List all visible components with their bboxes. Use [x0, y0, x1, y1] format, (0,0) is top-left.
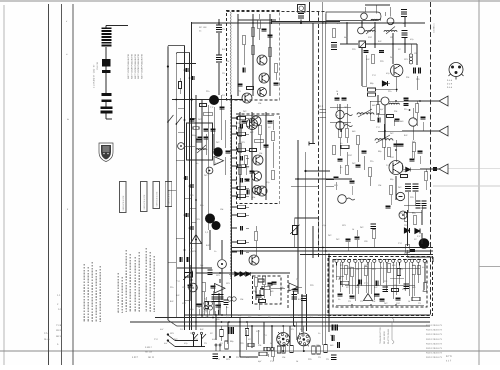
resistor R130	[205, 302, 208, 309]
pin wire b	[246, 206, 249, 208]
alignment dot M4	[212, 221, 221, 230]
capacitor C66	[364, 51, 369, 53]
resistor R27	[247, 87, 254, 90]
capacitor C72	[404, 104, 409, 106]
page rule line right stub	[479, 266, 500, 268]
resistor R122	[277, 346, 280, 353]
wire	[246, 322, 248, 328]
wire	[392, 33, 394, 64]
module wire (x202)	[201, 100, 203, 318]
svg-text:71 36: 71 36	[56, 324, 63, 327]
junction	[301, 321, 303, 323]
junction on y23 rail	[269, 22, 271, 24]
svg-text:DR 111 9000: DR 111 9000	[383, 331, 386, 344]
wire	[218, 19, 220, 25]
wire y44	[340, 43, 358, 45]
wire	[376, 114, 385, 116]
wire	[303, 346, 305, 351]
wire in box II	[239, 112, 241, 200]
electrolytic capacitor C81	[405, 184, 411, 191]
capacitor C11	[204, 129, 209, 131]
wire	[365, 55, 367, 86]
legend box 1	[120, 182, 127, 213]
wire	[362, 85, 367, 87]
level triangle	[289, 283, 298, 291]
capacitor C19	[211, 286, 216, 288]
junction	[191, 279, 193, 281]
electrolytic capacitor C42	[216, 55, 222, 62]
wire	[221, 240, 223, 259]
bus rail y251	[232, 250, 433, 252]
wire	[346, 152, 348, 165]
svg-text:OC 75: OC 75	[205, 310, 208, 317]
resistor R79	[415, 104, 419, 113]
alignment dot M5	[419, 238, 430, 249]
wire	[339, 165, 341, 174]
electrolytic capacitor C97	[301, 296, 307, 301]
capacitor C98	[355, 237, 360, 239]
drop wire	[271, 326, 273, 348]
junction	[239, 321, 241, 323]
bus rail y326 with bend	[168, 320, 430, 326]
IC pin drop wire 5	[361, 266, 363, 287]
wire	[407, 250, 409, 257]
capacitor C11c	[204, 137, 209, 139]
capacitor C91	[335, 98, 340, 100]
scan streak y186	[433, 185, 500, 187]
wire	[255, 287, 257, 300]
wire	[214, 311, 216, 315]
wire	[105, 73, 107, 93]
capacitor C54	[241, 156, 243, 161]
potentiometer P2 (volume)	[183, 271, 193, 280]
wire	[425, 169, 427, 172]
junction	[396, 89, 398, 91]
pin wire b	[246, 214, 249, 216]
capacitor C48	[191, 184, 193, 188]
diode D3	[415, 228, 420, 233]
wire	[351, 186, 353, 195]
wire	[410, 44, 412, 53]
transistor T4	[251, 116, 261, 126]
wire	[105, 102, 107, 106]
wire	[336, 275, 344, 277]
junction	[251, 325, 253, 327]
terminal lead	[272, 21, 341, 23]
electrolytic capacitor C115	[291, 295, 297, 300]
wire	[330, 121, 351, 123]
junction	[167, 121, 169, 123]
dial scale band 7	[102, 45, 112, 47]
switch lever S1b	[167, 340, 175, 347]
IC pin drop wire 12	[405, 266, 407, 292]
capacitor C68	[414, 68, 416, 74]
coil L5	[389, 103, 399, 104]
capacitor C31	[245, 179, 250, 181]
junction	[395, 100, 397, 102]
wire	[271, 287, 285, 289]
wire	[258, 290, 260, 294]
capacitor C44	[220, 107, 225, 109]
svg-text:C51 C52: C51 C52	[96, 61, 99, 70]
junction	[195, 321, 197, 323]
resistor R21	[251, 28, 255, 37]
resistor R34	[271, 132, 275, 141]
legend box 3	[153, 182, 160, 209]
tick	[178, 131, 185, 133]
transistor T2	[259, 73, 269, 83]
transistor T11 (RF amp)	[391, 64, 403, 76]
capacitor C133	[375, 294, 380, 296]
junction	[374, 43, 376, 45]
pin wire	[232, 241, 238, 243]
scalloped shield line x230	[230, 12, 231, 279]
wire	[416, 76, 418, 90]
paper fold line left	[3, 5, 5, 365]
diode D4b	[240, 272, 244, 276]
module wire (x214)	[213, 107, 215, 150]
wire	[373, 239, 375, 247]
AF arrow triangle	[215, 284, 226, 294]
resistor R131	[397, 269, 400, 276]
resistor R72	[382, 139, 386, 148]
wire	[275, 73, 277, 80]
resistor R103	[364, 267, 368, 276]
dial band 9	[102, 93, 112, 96]
junction	[184, 214, 186, 216]
test point TP10	[399, 211, 407, 219]
electrolytic capacitor C82	[413, 184, 419, 191]
audio rail y273	[196, 272, 290, 274]
wire	[225, 306, 227, 315]
resistor R128	[258, 279, 264, 282]
wire	[382, 83, 390, 85]
fold line A	[48, 4, 50, 365]
capacitor C102	[376, 281, 378, 286]
service note text column 14	[153, 256, 155, 312]
switch wire y340	[175, 340, 198, 342]
resistor R126	[317, 346, 320, 354]
contact K2a	[192, 332, 198, 347]
dashed module box IV	[253, 276, 282, 304]
capacitor C18	[197, 139, 202, 141]
legend box 2	[141, 182, 148, 212]
wire	[336, 93, 338, 95]
svg-text:C4 8 73: C4 8 73	[434, 324, 442, 327]
pin wire	[232, 133, 238, 135]
junction	[175, 99, 177, 101]
junction	[212, 317, 214, 319]
wire	[396, 77, 398, 92]
test point TP1	[178, 143, 185, 150]
junction	[189, 227, 191, 229]
connector K1 circle	[299, 6, 303, 10]
module wire (x196)	[195, 95, 197, 330]
wire	[413, 152, 415, 160]
drop wire	[215, 315, 217, 340]
capacitor C105	[338, 294, 343, 296]
resistor R53	[238, 148, 246, 151]
electrolytic capacitor C117	[212, 354, 218, 359]
resistor R116	[262, 276, 266, 285]
junction	[395, 149, 397, 151]
lamp LA1	[204, 301, 213, 310]
svg-text:C4 8 73: C4 8 73	[434, 329, 442, 332]
resistor R82	[413, 216, 417, 225]
dial band 12	[101, 111, 113, 114]
transistor T5	[253, 155, 263, 165]
resistor R80d	[424, 172, 428, 181]
wire	[346, 23, 348, 44]
junction on y23 rail	[374, 22, 376, 24]
coil L2	[365, 30, 375, 31]
wire	[384, 105, 386, 139]
net bus V3 (x176)	[175, 54, 177, 318]
svg-text:SK 11: SK 11	[148, 356, 155, 359]
pin wire b	[246, 165, 249, 167]
TP10 dot	[402, 214, 404, 216]
dial scale band 2	[102, 30, 112, 32]
svg-text:4 017: 4 017	[132, 356, 138, 359]
resistor R55	[238, 164, 246, 167]
capacitor C13	[190, 119, 195, 121]
drop wire	[227, 322, 229, 344]
module top wire (y99)	[172, 99, 243, 101]
resistor R65	[368, 93, 376, 96]
IC pin drop wire 11	[399, 266, 401, 285]
net bus V2 (x168)	[167, 47, 169, 320]
resistor R96	[372, 230, 376, 239]
wire	[384, 12, 386, 16]
tick	[190, 207, 197, 209]
junction node	[304, 170, 306, 172]
svg-text:TRANSDUCTOR: TRANSDUCTOR	[379, 327, 382, 344]
capacitor C77	[386, 206, 391, 208]
wire	[179, 89, 181, 94]
svg-text:C4 8 73: C4 8 73	[434, 333, 442, 336]
svg-text:C4 8 73: C4 8 73	[434, 356, 442, 359]
wire	[339, 138, 341, 156]
capacitor C63	[241, 250, 243, 255]
antenna feed wire 3	[420, 168, 439, 170]
test point TP11	[336, 110, 344, 118]
wire	[303, 326, 305, 333]
pin wire	[232, 214, 238, 216]
junction	[184, 177, 186, 179]
electrolytic capacitor C104	[403, 284, 409, 289]
wire	[432, 257, 434, 262]
svg-text:SERVICE NOTE: SERVICE NOTE	[155, 191, 158, 207]
resistor R123	[282, 346, 285, 353]
IC pin drop wire 10	[392, 266, 394, 300]
pin wire b	[246, 241, 249, 243]
wire x313	[312, 226, 314, 258]
capacitor C34	[250, 171, 255, 173]
capacitor C101	[359, 280, 361, 285]
junction	[325, 250, 327, 252]
wire	[402, 168, 420, 170]
electrolytic capacitor C126	[331, 355, 337, 360]
wire	[214, 302, 216, 315]
service note text column 9	[129, 254, 131, 312]
junction	[297, 178, 299, 180]
wire	[395, 262, 397, 295]
svg-text:NIET VOOR PUBLIKATIE: NIET VOOR PUBLIKATIE	[127, 53, 130, 79]
capacitor C94b	[350, 181, 355, 183]
junction	[221, 321, 223, 323]
wire	[402, 130, 417, 132]
wire	[300, 20, 302, 24]
wire	[404, 38, 406, 53]
wire	[294, 235, 296, 248]
junction	[176, 123, 178, 125]
wire	[401, 163, 403, 169]
wire	[374, 24, 376, 48]
junction	[167, 65, 169, 67]
pin wire	[232, 251, 238, 253]
junction	[223, 356, 225, 358]
diode D6	[406, 167, 410, 171]
junction	[184, 249, 186, 251]
resistor R112	[259, 352, 267, 355]
wire	[365, 276, 367, 293]
resistor R74	[387, 148, 391, 157]
wire	[390, 277, 404, 279]
wire y218	[295, 217, 319, 219]
wire	[416, 101, 418, 104]
capacitor C92	[342, 98, 347, 100]
resistor R113	[271, 348, 275, 357]
drop wire	[289, 326, 291, 345]
wire spine x309	[309, 2, 311, 21]
coil L6 arrow	[376, 135, 390, 143]
wire	[419, 156, 421, 164]
transistor T3	[258, 88, 267, 97]
svg-text:NIET VOOR PUBLIKATIE: NIET VOOR PUBLIKATIE	[130, 53, 133, 79]
capacitor C69	[419, 68, 421, 74]
net bus x325	[325, 14, 327, 345]
IC edge wire (x231.5)	[231, 95, 233, 318]
wire	[267, 354, 269, 357]
capacitor C119	[268, 283, 273, 285]
capacitor C94	[334, 177, 339, 179]
resistor R62	[371, 55, 375, 64]
wire	[258, 14, 260, 19]
scan artifact: top edge bar	[0, 0, 500, 2]
resistor R23	[268, 48, 272, 57]
op-amp triangle	[364, 294, 373, 301]
wire	[424, 262, 426, 283]
wire	[336, 304, 424, 306]
junction	[184, 69, 186, 71]
svg-text:b c e: b c e	[447, 79, 453, 82]
service note text column 6	[117, 273, 119, 313]
junction	[384, 130, 386, 132]
pin wire	[232, 227, 238, 229]
oscillator can Q2 (socket view)	[297, 332, 310, 346]
dashed IC box outer	[328, 257, 433, 316]
bus rail y247	[232, 247, 433, 249]
resistor R81	[404, 213, 408, 222]
coil L6	[375, 139, 393, 141]
service note text column 8	[125, 250, 127, 312]
service note text column 3	[91, 262, 93, 322]
wire	[351, 277, 353, 294]
scan seam line right	[478, 0, 480, 365]
svg-text:28 37: 28 37	[56, 329, 63, 332]
wire	[346, 138, 348, 143]
resistor R26	[257, 20, 261, 29]
wire	[357, 145, 359, 162]
triangle drop wire	[293, 291, 295, 326]
TP10a minus sign	[399, 196, 403, 198]
resistor R115	[254, 278, 258, 287]
coil L5a arrow	[358, 109, 372, 117]
resistor R120	[225, 341, 228, 349]
wire	[224, 157, 226, 175]
wire	[383, 124, 385, 139]
junction	[328, 254, 330, 256]
transistor pinout diagram	[449, 63, 464, 80]
capacitor C93	[338, 159, 343, 161]
test point TP4	[361, 13, 368, 20]
capacitor C107	[380, 299, 385, 301]
wire in box II top	[238, 114, 274, 116]
wire	[221, 326, 223, 329]
svg-text:M: M	[192, 286, 195, 290]
test point TP6	[358, 27, 365, 34]
wire	[218, 33, 220, 55]
capacitor C21	[268, 35, 273, 37]
svg-text:PLATTE DN111: PLATTE DN111	[387, 328, 390, 344]
supply rail top (y23)	[192, 22, 425, 24]
test point TP8	[409, 118, 417, 126]
transistor T10	[253, 186, 262, 195]
wire	[195, 272, 197, 283]
wire x298	[297, 140, 299, 294]
svg-text:4 1 7: 4 1 7	[446, 360, 452, 363]
wire	[205, 134, 207, 155]
wire dial chain top lead	[106, 25, 128, 27]
contact K2b	[200, 332, 206, 347]
wire	[411, 150, 413, 158]
antenna symbol A2	[439, 126, 448, 136]
pin wire b	[246, 187, 249, 189]
antenna symbol A3	[439, 164, 448, 174]
resistor R32	[238, 144, 242, 153]
resistor R59	[238, 205, 246, 208]
wire	[208, 311, 210, 315]
wire in box II c	[265, 112, 267, 200]
service note text column 2	[87, 267, 89, 322]
motor symbol M	[189, 283, 198, 292]
svg-text:U4 ABC 1: U4 ABC 1	[433, 23, 436, 33]
capacitor C36	[242, 121, 247, 123]
wire	[298, 286, 302, 288]
wire	[184, 145, 195, 147]
dashed module box II	[237, 114, 280, 204]
wire y5	[365, 4, 390, 6]
junction	[357, 284, 359, 286]
wire in box I c	[237, 14, 239, 96]
connector K1 body	[298, 5, 306, 13]
resistor R119	[245, 329, 248, 336]
junction	[370, 304, 372, 306]
resistor R105	[412, 266, 416, 275]
resistor R117	[259, 300, 266, 303]
capacitor C75	[378, 118, 380, 123]
junction	[189, 77, 191, 79]
